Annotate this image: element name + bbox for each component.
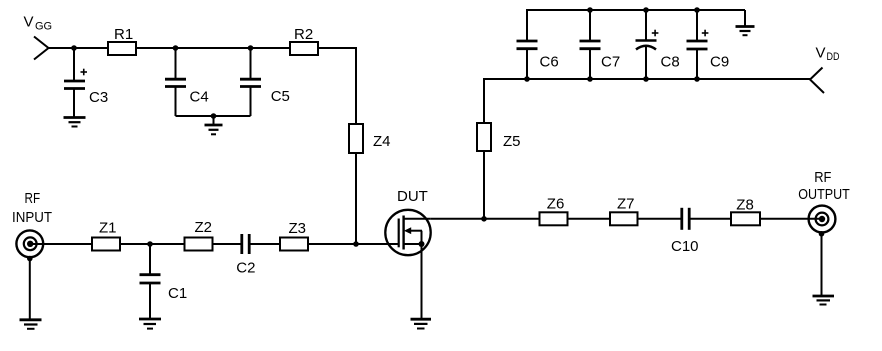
DUT gate bar xyxy=(398,219,400,248)
DUT source lead xyxy=(404,243,422,245)
node junction dot C5 top xyxy=(248,45,254,51)
svg-text:C9: C9 xyxy=(710,54,729,71)
node junction dot C6 bottom xyxy=(524,76,530,82)
capacitor C4 xyxy=(165,79,186,86)
wire VDD top rail xyxy=(527,9,745,11)
svg-text:OUTPUT: OUTPUT xyxy=(798,186,850,203)
impedance Z6 xyxy=(540,212,568,225)
wire C9 top stem xyxy=(696,10,698,40)
wire C8 top stem xyxy=(645,10,647,40)
resistor R1 xyxy=(108,42,136,55)
node junction dot drain/Z5 xyxy=(481,216,487,222)
svg-text:Z7: Z7 xyxy=(617,195,635,212)
node RF OUTPUT label xyxy=(798,169,850,203)
node junction dot C7 top xyxy=(587,7,593,13)
svg-text:C2: C2 xyxy=(236,260,255,277)
node VGG label xyxy=(24,14,53,33)
wire C10 to Z8 xyxy=(689,218,731,220)
node junction dot C9 bottom xyxy=(694,76,700,82)
svg-text:RF: RF xyxy=(814,169,831,186)
wire drain to Z6 xyxy=(431,218,540,220)
wire VDD bottom rail xyxy=(484,78,810,80)
capacitor C6 xyxy=(517,41,538,49)
capacitor C10 series xyxy=(682,208,689,230)
node junction dot C7 bottom xyxy=(587,76,593,82)
wire Z1 to Z2 xyxy=(120,243,185,245)
DUT drain lead xyxy=(404,218,431,220)
svg-text:C6: C6 xyxy=(540,54,559,71)
node junction dot C4 top xyxy=(173,45,179,51)
node RF INPUT label xyxy=(12,190,52,226)
wire C8 bottom stem xyxy=(645,46,647,80)
svg-text:C3: C3 xyxy=(89,89,108,106)
wire C1 top stem xyxy=(149,244,151,274)
wire VDD rail down to Z5 xyxy=(483,78,485,123)
connector RF INPUT xyxy=(16,230,43,257)
ground top right xyxy=(736,27,755,36)
svg-text:Z5: Z5 xyxy=(503,133,521,150)
wire C4/C5 bottom link xyxy=(176,115,251,117)
wire body to source xyxy=(421,231,423,244)
svg-text:GG: GG xyxy=(35,21,52,33)
wire ground stem C4/C5 xyxy=(213,116,215,125)
wire Z4 to gate node xyxy=(355,153,357,244)
transistor DUT body circle xyxy=(385,210,430,255)
node junction dot C8 bottom xyxy=(643,76,649,82)
wire DUT source to ground xyxy=(421,244,423,319)
wire corner down to Z4 xyxy=(355,47,357,124)
svg-text:DD: DD xyxy=(827,51,840,63)
wire R1 to R2 xyxy=(136,47,290,49)
wire C6 bottom stem xyxy=(526,49,528,79)
ground below RF INPUT xyxy=(20,320,42,329)
svg-text:INPUT: INPUT xyxy=(12,209,52,226)
wire VGG to R1 xyxy=(49,47,109,49)
wire top rail to ground xyxy=(744,10,746,26)
resistor R2 xyxy=(290,42,318,55)
wire Z3 to DUT gate xyxy=(308,243,399,245)
node VDD label xyxy=(816,45,840,64)
wire C9 bottom stem xyxy=(696,49,698,79)
ground below DUT xyxy=(411,319,432,328)
capacitor C8 electrolytic xyxy=(636,41,657,50)
wire C6 top stem xyxy=(526,9,528,40)
node junction dot C4/C5 ground xyxy=(211,113,217,119)
wire R2 to corner xyxy=(318,47,356,49)
capacitor C3 xyxy=(64,81,85,89)
capacitor C2 series xyxy=(242,234,249,254)
svg-text:Z1: Z1 xyxy=(99,220,117,237)
svg-text:C7: C7 xyxy=(601,54,620,71)
impedance Z4 xyxy=(349,124,363,153)
impedance Z5 xyxy=(477,123,491,151)
C8 plus polarity mark xyxy=(652,30,659,37)
connector RF OUTPUT xyxy=(809,206,836,233)
wire C3 bottom stem xyxy=(73,89,75,118)
node junction dot C8 top xyxy=(643,7,649,13)
ground below RF OUTPUT xyxy=(813,296,835,305)
wire output shield to ground xyxy=(821,232,823,295)
svg-text:C1: C1 xyxy=(168,285,187,302)
wire Z5 to drain node xyxy=(483,151,485,219)
wire RF input to Z1 xyxy=(30,243,92,245)
impedance Z2 xyxy=(185,238,213,251)
ground below C3 xyxy=(64,118,86,127)
ground below C4/C5 xyxy=(205,125,223,134)
svg-text:C8: C8 xyxy=(661,54,680,71)
wire Z8 to RF output xyxy=(760,218,822,220)
wire C2 to Z3 xyxy=(249,243,280,245)
svg-text:R2: R2 xyxy=(294,26,313,43)
node junction dot C1 top xyxy=(147,241,153,247)
wire C7 top stem xyxy=(589,10,591,40)
svg-text:C5: C5 xyxy=(271,88,290,105)
DUT body arrow xyxy=(404,227,422,234)
wire C3 top stem xyxy=(73,48,75,80)
node VDD terminal chevron xyxy=(810,68,824,94)
wire C4 top stem xyxy=(175,48,177,79)
impedance Z8 xyxy=(731,212,760,225)
node junction dot C9 top xyxy=(694,7,700,13)
node junction dot DUT source xyxy=(419,241,425,247)
svg-text:Z4: Z4 xyxy=(373,133,391,150)
DUT channel bar xyxy=(402,216,404,250)
ground below C1 xyxy=(139,319,161,329)
wire C5 top stem xyxy=(250,48,252,79)
capacitor C5 xyxy=(240,79,261,86)
svg-text:DUT: DUT xyxy=(397,188,428,205)
wire C4 bottom stem xyxy=(175,87,177,117)
C9 plus polarity mark xyxy=(702,30,709,37)
svg-text:R1: R1 xyxy=(114,26,133,43)
svg-text:Z2: Z2 xyxy=(195,219,213,236)
svg-text:C10: C10 xyxy=(671,238,699,255)
node junction dot gate/Z4 xyxy=(353,241,359,247)
svg-text:V: V xyxy=(816,45,826,62)
svg-text:Z3: Z3 xyxy=(289,220,307,237)
capacitor C9 xyxy=(687,41,708,49)
impedance Z7 xyxy=(610,212,638,225)
impedance Z3 xyxy=(280,238,308,251)
svg-text:C4: C4 xyxy=(190,89,209,106)
capacitor C1 xyxy=(140,275,161,283)
wire Z7 to C10 xyxy=(638,218,682,220)
C3 plus polarity mark xyxy=(81,69,88,76)
svg-text:Z6: Z6 xyxy=(547,195,565,212)
wire C5 bottom stem xyxy=(250,87,252,117)
node junction dot output shield xyxy=(819,231,825,237)
wire C7 bottom stem xyxy=(589,49,591,79)
node junction dot input shield xyxy=(27,256,33,262)
svg-text:Z8: Z8 xyxy=(736,197,754,214)
svg-text:RF: RF xyxy=(25,190,41,207)
wire C1 bottom stem xyxy=(149,283,151,319)
svg-text:V: V xyxy=(24,14,34,31)
wire Z6 to Z7 xyxy=(568,218,611,220)
wire Z2 to C2 xyxy=(213,243,242,245)
node junction dot VGG/C3 xyxy=(71,45,77,51)
impedance Z1 xyxy=(92,238,120,251)
wire input shield to ground xyxy=(29,257,31,319)
capacitor C7 xyxy=(580,41,601,49)
node VGG terminal chevron xyxy=(34,37,49,60)
